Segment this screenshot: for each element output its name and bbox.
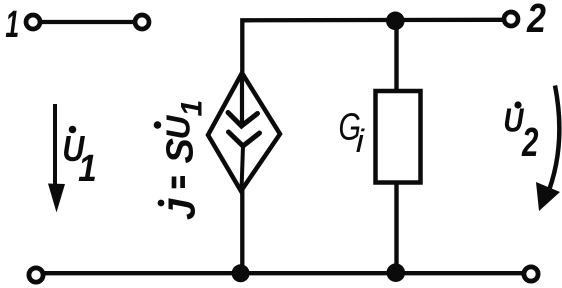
voltage U2 curved arrow [546, 86, 559, 199]
source value label dot over U [154, 121, 162, 129]
terminal bottom-left [29, 268, 43, 282]
source value label = bar 2 [180, 176, 185, 188]
junction bottom right [387, 263, 406, 282]
label U1 dot [69, 126, 77, 134]
wire bottom horizontal [44, 271, 523, 275]
terminal 2 [504, 12, 518, 26]
terminal bottom-right [524, 267, 538, 281]
svg-text:2: 2 [526, 0, 546, 41]
label U2 dot [514, 101, 521, 108]
voltage U1 arrow shaft [53, 104, 57, 188]
svg-text:U: U [160, 115, 197, 140]
current source arrowhead chevron 1 [228, 113, 258, 127]
current source J diamond [208, 73, 280, 191]
wire source to bottom [240, 190, 244, 273]
current source lower stem [242, 146, 244, 190]
svg-text:1: 1 [5, 3, 19, 46]
current source arrow shaft [240, 76, 244, 124]
source value label = bar 1 [172, 177, 177, 189]
voltage U1 arrowhead [48, 184, 65, 213]
svg-text:1: 1 [78, 147, 97, 189]
svg-text:i: i [356, 124, 366, 159]
wire top horizontal [242, 20, 504, 73]
svg-text:1: 1 [176, 100, 209, 117]
voltage U2 arrowhead [536, 182, 560, 211]
terminal stub right [135, 15, 149, 29]
current source arrowhead chevron 2 [229, 132, 260, 146]
wire resistor bottom [394, 181, 398, 273]
wire top-left stub [41, 20, 135, 24]
resistor Gi body [376, 91, 421, 183]
svg-text:2: 2 [521, 119, 538, 165]
svg-text:S: S [160, 138, 202, 163]
source value label dot over J [158, 200, 165, 207]
junction top [386, 11, 405, 30]
svg-text:J: J [162, 198, 204, 220]
terminal 1 left [26, 15, 40, 29]
svg-text:U: U [503, 102, 524, 139]
junction bottom left [232, 264, 250, 282]
wire junction to resistor top [394, 20, 398, 92]
